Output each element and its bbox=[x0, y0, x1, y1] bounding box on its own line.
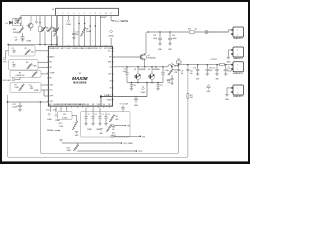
svg-text:Q2: Q2 bbox=[134, 69, 136, 71]
wire header pin drops to U1 top pins bbox=[58, 17, 101, 46]
op-amp U1 MAX15026 controller IC body bbox=[48, 46, 112, 106]
transistor Q3 low-side MOSFET bbox=[148, 67, 159, 83]
svg-text:SYNC: SYNC bbox=[93, 48, 99, 50]
svg-text:VOUT_SENSE: VOUT_SENSE bbox=[115, 21, 129, 23]
svg-text:SGND: SGND bbox=[108, 36, 114, 38]
group box B with C3 R3 bbox=[9, 60, 39, 71]
svg-text:N.C.: N.C. bbox=[108, 51, 112, 53]
svg-text:1: 1 bbox=[237, 65, 238, 67]
wire LX node bus bbox=[112, 62, 168, 68]
svg-text:C18: C18 bbox=[190, 71, 193, 73]
capacitor C21b output bbox=[212, 65, 219, 81]
svg-text:100μF: 100μF bbox=[172, 38, 177, 40]
svg-text:R20: R20 bbox=[13, 29, 16, 31]
svg-text:ILIM: ILIM bbox=[49, 85, 53, 87]
resistor R27 inline on rail bbox=[187, 94, 194, 100]
svg-text:C5: C5 bbox=[88, 114, 90, 116]
wire gate drive to Q1 bbox=[112, 56, 140, 58]
svg-text:1μF: 1μF bbox=[167, 82, 170, 84]
capacitor C22b output bulk bbox=[224, 65, 232, 76]
svg-text:GND: GND bbox=[134, 105, 139, 107]
capacitor C15 snubber 2 bbox=[161, 67, 168, 83]
svg-text:HEADER 2: HEADER 2 bbox=[233, 37, 244, 40]
svg-text:150μF: 150μF bbox=[12, 107, 18, 109]
MAXIM logo bbox=[72, 76, 87, 81]
resistor R23 inline bbox=[188, 28, 197, 33]
svg-text:HEADER 2: HEADER 2 bbox=[233, 95, 244, 98]
test point TP6 and VIN stub bbox=[111, 135, 145, 138]
svg-text:Q1: Q1 bbox=[148, 55, 150, 57]
ground GND below box E bbox=[99, 129, 103, 135]
label GND right of ground bus bbox=[167, 80, 171, 82]
svg-text:TP4: TP4 bbox=[127, 126, 130, 128]
capacitor C9 bbox=[120, 104, 128, 112]
svg-text:R9: R9 bbox=[86, 29, 88, 31]
svg-text:2: 2 bbox=[237, 69, 238, 71]
transistor Q2 low-side MOSFET bbox=[134, 67, 145, 83]
svg-text:R17: R17 bbox=[63, 114, 66, 116]
svg-text:1: 1 bbox=[57, 13, 58, 15]
capacitor C18 on return rail bbox=[186, 69, 193, 75]
svg-text:CS+: CS+ bbox=[49, 90, 52, 92]
border frame bbox=[0, 0, 250, 2]
wire C21 to CSP pin bbox=[41, 101, 49, 103]
U1 top pin ticks bbox=[58, 45, 111, 47]
ground PGND below header pin 3 bbox=[66, 17, 72, 26]
svg-text:GND: GND bbox=[225, 99, 230, 101]
wire column A2 bbox=[44, 16, 46, 27]
svg-text:R1: R1 bbox=[25, 48, 27, 50]
U1 right pin ticks and labels bbox=[107, 51, 114, 102]
label SENSE bbox=[47, 130, 60, 132]
capacitor C21 input bulk bbox=[7, 101, 42, 111]
svg-text:1: 1 bbox=[237, 50, 238, 52]
svg-text:R2: R2 bbox=[19, 72, 21, 74]
svg-text:C6: C6 bbox=[95, 114, 97, 116]
svg-text:2: 2 bbox=[237, 92, 238, 94]
resistor R17 box bbox=[58, 108, 73, 120]
capacitor C19 output bbox=[193, 65, 200, 81]
svg-text:3: 3 bbox=[68, 13, 69, 15]
svg-text:Q3: Q3 bbox=[148, 69, 150, 71]
svg-text:(P2): (P2) bbox=[53, 109, 56, 111]
svg-text:1μF: 1μF bbox=[76, 34, 79, 36]
wire VOUT terminal bbox=[78, 150, 143, 153]
ground GND arrow top of box E bbox=[134, 97, 139, 107]
svg-text:C9: C9 bbox=[120, 104, 122, 106]
svg-text:4: 4 bbox=[73, 13, 74, 15]
wire VOUT_SENSE from header pin 11 bbox=[100, 17, 128, 23]
labels SGND GND inside box E bbox=[87, 129, 100, 131]
wire boxB to U1 bbox=[38, 62, 48, 67]
svg-text:C8: C8 bbox=[108, 114, 110, 116]
resistor R20 bbox=[13, 26, 24, 37]
ground GND R14 cluster bbox=[59, 140, 63, 142]
resistor R6 bbox=[41, 27, 50, 45]
svg-text:VIN: VIN bbox=[142, 137, 145, 139]
svg-text:9: 9 bbox=[100, 13, 101, 15]
svg-text:R10: R10 bbox=[53, 29, 56, 31]
svg-text:R11: R11 bbox=[115, 116, 118, 118]
svg-text:R13: R13 bbox=[67, 147, 70, 149]
svg-text:R25: R25 bbox=[177, 59, 180, 61]
resistor R25 current sense bbox=[176, 59, 181, 65]
svg-text:0.39kΩ 1%: 0.39kΩ 1% bbox=[16, 75, 25, 77]
capacitor C17 on sense rail bbox=[177, 69, 184, 75]
svg-text:PGND: PGND bbox=[66, 24, 72, 26]
test point TP4 bbox=[111, 124, 130, 127]
svg-text:R27: R27 bbox=[190, 95, 193, 97]
capacitor C6 bbox=[91, 108, 97, 126]
capacitor C13 snubber bbox=[123, 67, 129, 83]
svg-text:5: 5 bbox=[79, 13, 80, 15]
test point TP1 on IN bus bbox=[205, 31, 208, 34]
node P1 pad bbox=[46, 108, 52, 121]
capacitor C26 bbox=[153, 32, 163, 51]
svg-text:100kΩ: 100kΩ bbox=[86, 31, 92, 33]
svg-text:PGND1: PGND1 bbox=[49, 48, 56, 50]
svg-text:47μF: 47μF bbox=[209, 70, 213, 72]
resistor R16 bbox=[59, 116, 79, 138]
wire row above U1 bbox=[7, 44, 57, 46]
transistor Q1 high-side MOSFET bbox=[140, 32, 156, 62]
svg-text:7: 7 bbox=[90, 13, 91, 15]
svg-text:SENSE: SENSE bbox=[47, 130, 54, 132]
svg-text:2: 2 bbox=[237, 34, 238, 36]
svg-text:10: 10 bbox=[105, 13, 107, 15]
resistor R12 bbox=[106, 125, 115, 132]
group box D resistor R5 capacitor C4 bbox=[10, 83, 41, 93]
wire column A3 bbox=[51, 16, 53, 27]
svg-text:11: 11 bbox=[110, 13, 112, 15]
wire IN bus top bbox=[147, 31, 228, 33]
svg-text:8: 8 bbox=[95, 13, 96, 15]
svg-text:C23: C23 bbox=[160, 85, 163, 87]
svg-text:C21: C21 bbox=[12, 104, 15, 106]
svg-text:HEADER 2: HEADER 2 bbox=[233, 72, 244, 75]
svg-text:SGND: SGND bbox=[108, 48, 114, 50]
group box C resistor R2 bbox=[10, 71, 48, 78]
svg-text:R15: R15 bbox=[112, 132, 115, 134]
svg-text:R6: R6 bbox=[46, 28, 48, 30]
svg-text:2: 2 bbox=[237, 54, 238, 56]
svg-text:PGND: PGND bbox=[107, 99, 113, 101]
svg-text:SENSE: SENSE bbox=[100, 17, 105, 19]
svg-text:C17: C17 bbox=[181, 71, 184, 73]
svg-text:6: 6 bbox=[84, 13, 85, 15]
connector header H2 bbox=[226, 47, 244, 64]
svg-text:HEADER 2: HEADER 2 bbox=[233, 57, 244, 60]
wire output bus bbox=[178, 64, 232, 66]
svg-text:(P1): (P1) bbox=[46, 109, 49, 111]
capacitor C1 bbox=[15, 37, 33, 43]
resistor R7 bbox=[47, 27, 56, 45]
svg-text:100kΩ: 100kΩ bbox=[51, 31, 57, 33]
capacitor C14 bbox=[167, 78, 173, 84]
svg-text:GND: GND bbox=[226, 62, 231, 64]
svg-text:L1: L1 bbox=[171, 63, 173, 65]
capacitor C22 below ground bus bbox=[130, 82, 136, 91]
connector J1 10-pin header bbox=[52, 8, 118, 17]
inductor L1 bbox=[168, 63, 178, 67]
resistor R15 bbox=[112, 132, 116, 136]
capacitor C5 bbox=[84, 108, 90, 126]
svg-text:C19: C19 bbox=[193, 67, 196, 69]
wire boxA to U1 bbox=[6, 50, 49, 52]
group box E sense capacitors bbox=[81, 112, 131, 138]
U1 reference label bbox=[79, 73, 82, 75]
capacitor C8 bbox=[104, 113, 110, 126]
resistor R13 bbox=[67, 143, 79, 152]
svg-text:VDD: VDD bbox=[97, 104, 102, 106]
svg-text:2: 2 bbox=[62, 13, 63, 15]
svg-text:R23: R23 bbox=[188, 28, 191, 30]
ground GND triangle right bbox=[207, 85, 212, 94]
svg-text:VOUT_SENSE: VOUT_SENSE bbox=[123, 143, 132, 145]
wire VOUT_SENSE terminal bbox=[62, 142, 133, 145]
svg-text:TP2: TP2 bbox=[3, 62, 6, 64]
U1 left pin ticks and labels bbox=[47, 56, 55, 103]
svg-text:D1: D1 bbox=[6, 23, 8, 25]
diode D1 B340 bbox=[6, 18, 22, 25]
svg-text:R18: R18 bbox=[174, 70, 177, 72]
svg-text:C22: C22 bbox=[133, 85, 136, 87]
test point TP7 symbol bbox=[35, 16, 38, 24]
ground PGND power bbox=[101, 83, 147, 97]
svg-text:1: 1 bbox=[237, 88, 238, 90]
wire boxD to U1 bbox=[41, 85, 48, 96]
svg-text:C21: C21 bbox=[212, 67, 215, 69]
svg-text:FAULT: FAULT bbox=[49, 56, 54, 59]
U1 bottom pin ticks bbox=[50, 106, 109, 108]
svg-text:1μF: 1μF bbox=[181, 73, 184, 75]
svg-text:VOUT: VOUT bbox=[66, 48, 72, 50]
svg-text:B340: B340 bbox=[15, 21, 19, 23]
capacitor C12 bbox=[72, 30, 79, 40]
svg-text:COMP: COMP bbox=[49, 73, 55, 75]
resistor R26 inline header feed bbox=[210, 59, 224, 65]
resistor R21 boxed bbox=[39, 27, 45, 45]
capacitor C23 below ground bus bbox=[156, 82, 162, 91]
svg-text:100kΩ: 100kΩ bbox=[13, 32, 19, 34]
capacitor C7 bbox=[98, 108, 104, 126]
U1 top pin labels bbox=[49, 48, 114, 50]
svg-text:OUT: OUT bbox=[108, 74, 112, 76]
test point SGND diamond above U1 right bbox=[108, 30, 114, 45]
node P2 pad bbox=[53, 108, 60, 122]
resistor R10 bbox=[51, 27, 58, 45]
svg-text:R16: R16 bbox=[59, 123, 62, 125]
resistor R11 bbox=[109, 115, 119, 122]
junction dots header columns bbox=[78, 23, 96, 27]
svg-text:LX1: LX1 bbox=[56, 48, 59, 50]
svg-text:BST: BST bbox=[108, 62, 111, 64]
svg-text:C22: C22 bbox=[228, 68, 231, 70]
capacitor C16 bbox=[168, 32, 177, 51]
svg-text:4.7μF: 4.7μF bbox=[123, 71, 127, 73]
svg-text:VOUT: VOUT bbox=[138, 151, 142, 153]
svg-text:C14: C14 bbox=[167, 80, 170, 82]
svg-text:R3: R3 bbox=[26, 62, 28, 64]
U1 bottom pin labels bbox=[49, 104, 111, 106]
svg-text:0.1μF: 0.1μF bbox=[165, 70, 169, 72]
svg-text:4.99kΩ: 4.99kΩ bbox=[62, 117, 68, 119]
connector header H4 bbox=[225, 85, 244, 101]
capacitor C20 output bbox=[206, 65, 213, 76]
wire top input run bbox=[21, 15, 58, 17]
svg-text:1: 1 bbox=[237, 30, 238, 32]
svg-text:4.7Ω 1W: 4.7Ω 1W bbox=[210, 59, 217, 61]
wire power ground bus bbox=[127, 82, 163, 84]
svg-text:4.99k: 4.99k bbox=[33, 65, 37, 67]
capacitor C11 column bbox=[55, 16, 59, 45]
svg-text:C13: C13 bbox=[124, 69, 127, 71]
svg-text:10μF: 10μF bbox=[153, 38, 157, 40]
svg-text:1μF: 1μF bbox=[190, 73, 193, 75]
svg-text:220μF: 220μF bbox=[228, 71, 232, 73]
svg-text:MAXIM: MAXIM bbox=[72, 76, 87, 81]
wire VIN- return rail (left outer / bottom / right outer) bbox=[8, 65, 188, 158]
svg-text:MAX15026B: MAX15026B bbox=[73, 81, 86, 84]
resistor R19 bbox=[14, 17, 21, 27]
test point TP3 VOLT ADJ bbox=[3, 78, 20, 82]
transistor Q4 bbox=[27, 16, 34, 32]
svg-text:C3: C3 bbox=[12, 62, 14, 64]
svg-text:C7: C7 bbox=[102, 114, 104, 116]
svg-text:C2: C2 bbox=[12, 48, 14, 50]
svg-text:VOLT ADJ: VOLT ADJ bbox=[3, 79, 11, 82]
wire VOUT sense rail (left inner / bottom / right inner) bbox=[41, 65, 179, 154]
svg-text:4.99k: 4.99k bbox=[15, 87, 19, 89]
resistor R9 bbox=[80, 27, 92, 36]
svg-text:C4: C4 bbox=[29, 84, 31, 86]
wire column A1 bbox=[39, 16, 41, 27]
group box A with C2 R1 bbox=[9, 46, 36, 57]
resistor R18 feedback bbox=[168, 66, 178, 78]
U1 part number MAX15026 bbox=[73, 81, 86, 84]
label PGND at U1 pad bbox=[100, 95, 113, 106]
svg-text:R5: R5 bbox=[15, 84, 17, 86]
connector header H1 bbox=[208, 27, 244, 40]
test point TP2 bbox=[3, 51, 6, 64]
connector header H3 bbox=[231, 62, 244, 75]
svg-text:0.47μF: 0.47μF bbox=[123, 104, 128, 106]
